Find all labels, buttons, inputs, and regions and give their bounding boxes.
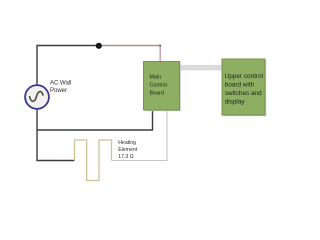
svg-text:Control: Control <box>150 82 167 88</box>
svg-text:Main: Main <box>150 75 162 81</box>
wire from AC source bottom down and right to heating element <box>37 110 75 161</box>
wire from junction to top corner <box>98 45 160 47</box>
AC source V1 <box>25 85 49 109</box>
svg-text:switches and: switches and <box>225 90 262 97</box>
svg-text:Heating: Heating <box>118 140 136 146</box>
svg-text:board with: board with <box>225 82 255 89</box>
ribbon cable between boards <box>179 65 223 70</box>
wire corner down into Main Control Board <box>159 46 161 63</box>
svg-text:Element: Element <box>118 147 138 153</box>
wire corner joint <box>159 45 161 47</box>
main control board U1 <box>144 62 181 112</box>
svg-text:Board: Board <box>150 90 164 96</box>
junction dot <box>96 43 102 49</box>
wire middle rail from left wire to Main Control Board bottom pin <box>37 110 153 130</box>
svg-text:Upper control: Upper control <box>225 73 263 80</box>
svg-text:Power: Power <box>50 88 67 94</box>
svg-text:display: display <box>225 98 246 105</box>
heating element R1 (square-wave symbol) <box>75 140 112 181</box>
wire heating element return to Main Control Board <box>112 110 168 161</box>
wire from AC source top up and right to junction <box>37 46 98 86</box>
svg-text:17.3 Ω: 17.3 Ω <box>118 154 134 160</box>
upper control board U2 <box>222 59 266 116</box>
svg-text:AC Wall: AC Wall <box>50 81 71 87</box>
